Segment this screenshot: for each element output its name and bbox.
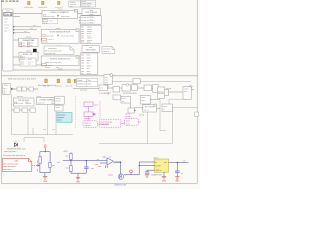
IC U2 pin block A [79, 16, 101, 25]
list box top [69, 1, 80, 8]
svg-text:xx: xx [122, 101, 124, 103]
comp r7 + r8 stacked [158, 87, 172, 98]
power flag PWR3 [65, 79, 73, 87]
svg-text:xxxx xx: xxxx xx [84, 118, 91, 120]
svg-text:xx xxx xx XXX x: xx xxx xx XXX x [81, 17, 95, 19]
IC pin3 wire + cap C6 [145, 170, 155, 177]
svg-text:xxxx (xx) xxx x: xxxx (xx) xxx x [4, 151, 16, 153]
wire U1 to U2 [77, 13, 82, 15]
diode D glyph [14, 142, 17, 147]
svg-text:xxxxx: xxxxx [4, 24, 9, 26]
svg-text:X xxx xxx xxxx xxxx xxx xx: X xxx xxx xxxx xxxx xxx xx [3, 155, 25, 157]
power symbol P1 [24, 1, 34, 9]
svg-text:xxxx: xxxx [87, 42, 91, 44]
svg-text:xx xxx: xx xxx [139, 115, 144, 117]
svg-text:xxx: xxx [30, 45, 33, 47]
magenta link wire [121, 122, 141, 124]
box W [140, 95, 150, 104]
wire L down/left [73, 84, 108, 88]
capacitor C1 [84, 167, 93, 170]
comp r2 [113, 87, 120, 92]
svg-text:xxx: xxx [57, 162, 60, 164]
ground G1 [43, 177, 48, 183]
dashed separator [75, 96, 77, 128]
svg-text:xxxxx: xxxxx [108, 175, 113, 177]
magenta dashed box A [83, 121, 97, 128]
svg-text:XX XXXXX XXX: XX XXXXX XXX [123, 93, 137, 95]
page left border [1, 0, 3, 184]
svg-text:xx: xx [97, 159, 99, 161]
comp r5 [144, 85, 152, 91]
svg-text:xxOUT: xxOUT [155, 165, 160, 167]
svg-text:xxx xxxx: xxx xxxx [80, 89, 87, 91]
wire stub arrows [13, 27, 41, 33]
svg-text:xxx: xxx [81, 60, 84, 62]
svg-text:XX x: XX x [4, 85, 8, 87]
svg-text:xxx: xxx [28, 64, 31, 66]
svg-text:xxx: xxx [52, 165, 55, 167]
svg-text:xxx xxx: xxx xxx [84, 125, 90, 127]
svg-text:xxx: xxx [66, 167, 69, 169]
svg-text:xxx: xxx [29, 103, 32, 105]
testpoint TP1 red [130, 170, 133, 175]
module U5 wide [41, 28, 79, 44]
wire J1 lower [13, 16, 20, 18]
page bottom border [2, 183, 198, 185]
svg-text:x xxx x: x xxx x [48, 39, 54, 41]
box T [55, 105, 63, 111]
svg-text:xxx: xxx [22, 45, 25, 47]
svg-text:Cnn_B: Cnn_B [4, 13, 12, 16]
circuit1 wires [40, 152, 50, 177]
svg-text:xxx: xxx [81, 63, 84, 65]
svg-text:xxx: xxx [105, 82, 108, 84]
power flag PWR4 [74, 79, 76, 82]
wire top right [112, 80, 191, 82]
long wire lower [13, 69, 80, 71]
svg-text:xxx: xxx [24, 31, 27, 33]
module U1 [42, 9, 77, 25]
svg-text:xxx x: xxx x [87, 73, 91, 75]
small right box [195, 112, 199, 116]
table top-right [80, 0, 95, 7]
svg-text:GND: GND [175, 181, 180, 183]
svg-text:xxx: xxx [98, 166, 101, 168]
ground G5 [175, 177, 180, 183]
svg-text:xxxx xxx xxx xx: xxxx xxx xxx xx [3, 166, 16, 168]
power flag PWR2 [55, 79, 62, 87]
svg-text:Xxx Xxxx Xxxxx Xx: Xxx Xxxx Xxxxx Xx [38, 85, 57, 87]
box X [128, 108, 136, 113]
svg-text:xxx: xxx [33, 25, 36, 27]
svg-text:XXX Xxx Xxx Xx X Xxx XX X: XXX Xxx Xxx Xx X Xxx XX X [8, 79, 37, 81]
svg-text:xxx xxxx: xxx xxxx [46, 36, 54, 38]
svg-text:SolderMnt: SolderMnt [24, 6, 34, 9]
svg-text:xxx: xxx [37, 169, 39, 172]
IC U8 pin rows [80, 53, 98, 75]
svg-text:XXXXX XXXXXX XX: XXXXX XXXXXX XX [50, 58, 71, 60]
svg-text:USB-C POWER IN: USB-C POWER IN [50, 12, 69, 14]
magenta dashed box D [125, 118, 139, 125]
svg-text:xxx xxx: xxx xxx [17, 103, 23, 105]
svg-text:XXXX SENSOR XXX: XXXX SENSOR XXX [50, 32, 71, 34]
svg-text:Xxxxx: Xxxxx [77, 80, 82, 82]
svg-text:xxxx: xxxx [87, 60, 91, 62]
svg-text:xxx: xxx [91, 168, 94, 170]
IC U8 [82, 46, 99, 53]
regulator U3 [19, 37, 38, 47]
svg-text:xxx: xxx [81, 68, 84, 70]
svg-text:xxx: xxx [81, 55, 84, 57]
mosfet Q1 [108, 174, 127, 187]
svg-text:xxx xxx: xxx xxx [65, 85, 73, 87]
svg-text:xxx: xxx [37, 160, 39, 163]
svg-text:XX XX XXX: XX XX XXX [18, 100, 29, 102]
table K [76, 78, 97, 86]
page right border [196, 0, 198, 184]
svg-text:xxxx: xxxx [126, 123, 130, 125]
top-left corner toolbar text [1, 0, 18, 2]
small comp a [17, 87, 21, 91]
svg-text:XXX XXXX: XXX XXXX [86, 50, 97, 52]
svg-text:xxx xxx xxxx xxxx: xxx xxx xxxx xxxx [3, 163, 18, 165]
wire J1 to U1 [13, 13, 42, 15]
resistor R3 [70, 154, 73, 160]
module U6 wide [41, 55, 79, 66]
opamp feed wire2 [100, 162, 107, 164]
svg-text:xxx: xxx [4, 30, 7, 32]
svg-text:xxx: xxx [164, 162, 167, 164]
svg-text:GND: GND [76, 181, 81, 183]
svg-text:xxx: xxx [66, 155, 69, 157]
svg-text:xxx: xxx [81, 65, 84, 67]
diode D2 [49, 163, 51, 168]
wire to U3 [13, 39, 19, 41]
arrow N [11, 88, 14, 91]
small box row2 right [113, 95, 121, 100]
svg-text:xxx: xxx [87, 68, 90, 70]
pink dashed riser [99, 101, 101, 119]
svg-text:xxxx: xxxx [126, 121, 130, 123]
svg-text:xxx xxxx x: xxx xxxx x [3, 169, 12, 171]
box Y [143, 104, 157, 112]
svg-text:xxx: xxx [43, 129, 46, 131]
svg-text:xxxx xxx: xxxx xxx [38, 103, 45, 105]
wire to U4 [13, 56, 19, 58]
svg-text:xx: xx [181, 173, 183, 175]
svg-text:GND xx: GND xx [155, 170, 161, 172]
red dashed arrow [32, 164, 38, 166]
wires mid [130, 100, 160, 109]
comp r1 [99, 85, 108, 90]
svg-text:xxx x: xxx x [141, 100, 145, 102]
svg-text:xx xxx: xx xxx [42, 42, 48, 44]
magenta comp 1 [84, 102, 99, 107]
circuit2 wires [63, 152, 107, 177]
svg-text:Xxx: Xxx [88, 80, 91, 82]
comp r4 [132, 85, 138, 90]
output wire right [170, 161, 189, 163]
small comp c [29, 87, 33, 91]
capacitor C4 [175, 162, 183, 176]
cyan note [57, 113, 72, 123]
svg-text:xxx xxxx: xxx xxxx [47, 16, 55, 18]
sheet background [0, 0, 200, 189]
svg-text:xxxx xx x: xxxx xx x [103, 51, 111, 53]
box S [55, 96, 64, 104]
small comp b [22, 87, 26, 91]
svg-text:x.xx: x.xx [95, 164, 98, 166]
box P [13, 98, 34, 106]
svg-text:xx xxx xx XXX x: xx xxx xx XXX x [81, 23, 95, 25]
svg-text:xx x: xx x [100, 88, 103, 90]
svg-text:XX XXXXX: XX XXXXX [145, 107, 155, 109]
svg-text:xxx: xxx [52, 129, 55, 131]
note flag N2 [102, 47, 115, 54]
svg-text:xxxxxx: xxxxxx [55, 85, 62, 87]
wires row1 right [108, 88, 183, 96]
svg-text:XLASXXNR: XLASXXNR [22, 39, 34, 42]
comp r10 below tall box [162, 99, 197, 111]
wire to U6 [13, 64, 41, 66]
svg-text:xx xxx xx XXX x: xx xxx xx XXX x [81, 20, 95, 22]
box V [121, 96, 130, 103]
organizing drop lines [12, 94, 73, 142]
svg-text:xxxx: xxxx [4, 18, 8, 20]
power symbol P2 [38, 1, 48, 9]
component L with diamond [104, 73, 113, 84]
IC U2 pin block B [80, 25, 101, 44]
output wire [114, 162, 121, 173]
svg-text:+xx: +xx [182, 161, 185, 163]
svg-text:xx xx: xx xx [43, 22, 47, 24]
svg-text:X XXXXXXX: X XXXXXXX [99, 93, 111, 95]
box Q [36, 98, 60, 105]
svg-text:xxx: xxx [70, 6, 73, 8]
svg-text:x xxx: x xxx [48, 20, 52, 22]
ground G4 under U5 [162, 172, 167, 182]
svg-text:xxxx xxxx: xxxx xxxx [101, 124, 109, 126]
svg-text:xx: xx [155, 162, 157, 164]
svg-text:GND: GND [162, 181, 167, 183]
comp r3 [122, 83, 130, 91]
svg-text:xx x: xx x [21, 64, 24, 66]
magenta comp 2 [84, 112, 96, 120]
svg-text:XXXXX XXX: XXXXX XXX [151, 174, 162, 176]
ground G2 [76, 178, 81, 184]
svg-text:xxx xx: xxx xx [56, 101, 61, 103]
opamp U4 [102, 156, 113, 164]
magenta dashed box B [99, 119, 120, 128]
small boxes R row [12, 108, 36, 112]
svg-text:xxx xx: xxx xx [144, 109, 149, 111]
svg-text:xxx x: xxx x [87, 57, 91, 59]
svg-text:xxx xxxx xxx: xxx xxxx xxx [45, 53, 56, 55]
note flag N1 [44, 46, 74, 55]
svg-text:xxx x: xxx x [58, 120, 62, 122]
svg-text:xxx x: xxx x [94, 105, 99, 107]
tall comp r9 [183, 85, 194, 99]
svg-text:xx x: xx x [3, 93, 6, 95]
svg-text:xxxx xxxx xxx: xxxx xxxx xxx [101, 121, 113, 123]
svg-text:xxx: xxx [81, 57, 84, 59]
comp r6 [153, 85, 159, 93]
svg-text:xx xxx: xx xxx [125, 116, 130, 118]
IC U4 with black chip [19, 49, 38, 61]
svg-text:xxx: xxx [81, 42, 84, 44]
svg-text:xxxxxx xxxx: xxxxxx xxxx [81, 5, 91, 7]
svg-text:xx: xx [109, 156, 111, 158]
svg-text:xxxx xxxx xxxx: xxxx xxxx xxxx [61, 36, 74, 38]
svg-text:GND: GND [43, 181, 48, 183]
magenta wires [89, 106, 110, 124]
mosfet drain wire [124, 162, 155, 175]
svg-text:SolderMnt: SolderMnt [38, 6, 48, 9]
svg-text:xxx: xxx [4, 21, 7, 23]
main row wire [14, 88, 38, 90]
svg-text:xxxx: xxxx [87, 55, 91, 57]
svg-text:xx xxx: xx xxx [45, 67, 50, 69]
svg-text:XXXXXXX XXXX xxxx: XXXXXXX XXXX xxxx [7, 148, 26, 150]
connector M left [3, 83, 11, 94]
svg-text:xxx: xxx [87, 63, 90, 65]
connector J1 tall box [3, 9, 13, 71]
section divider [2, 75, 198, 77]
red note box [2, 158, 31, 171]
IC U2 header [82, 9, 100, 16]
svg-text:xx: xx [163, 109, 165, 111]
svg-text:xx xx: xx xx [56, 107, 60, 109]
resistor R4 [70, 166, 73, 172]
svg-text:xxxx xxxx: xxxx xxxx [61, 16, 70, 18]
right organizing lines [99, 100, 172, 144]
svg-text:xx x: xx x [56, 67, 59, 69]
small table U7 [20, 58, 36, 66]
svg-text:xxxx: xxxx [4, 27, 8, 29]
svg-text:xxx: xxx [30, 28, 33, 30]
svg-text:xxxx x: xxxx x [87, 65, 92, 67]
comp on wire [133, 79, 140, 84]
regulator U5 body [153, 159, 170, 172]
svg-text:U4x: U4x [102, 156, 105, 158]
svg-text:xxxx xxxx xxx xxxx: xxxx xxxx xxx xxxx [45, 62, 62, 64]
svg-text:xxXx: xxXx [14, 160, 18, 162]
power flag F1 red [44, 145, 47, 152]
magenta text C [125, 113, 130, 118]
svg-text:xxxx: xxxx [88, 83, 92, 85]
power symbol P3 [55, 1, 63, 9]
svg-text:XxxXxx xx: XxxXxx xx [77, 83, 86, 85]
svg-text:XXXXXX XXX: XXXXXX XXX [114, 185, 127, 187]
svg-text:xx: xx [81, 73, 83, 75]
svg-text:x.xx xxx: x.xx xxx [114, 161, 121, 163]
power flag PWR1 [43, 79, 50, 87]
cap C5 small [98, 165, 107, 168]
svg-text:xxx: xxx [184, 91, 187, 93]
resistor R1 [39, 157, 41, 164]
